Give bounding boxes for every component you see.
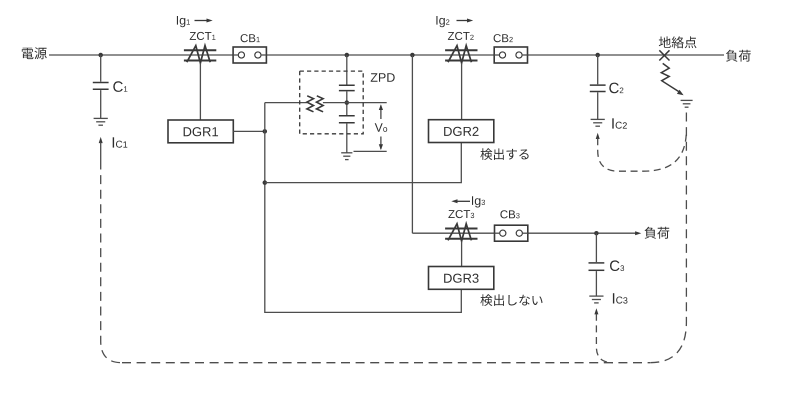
ground below C2: [591, 118, 605, 120]
wire C3 lower lead: [595, 271, 597, 296]
wire ZPD lower lead: [346, 124, 348, 153]
label Ig2: [436, 16, 444, 27]
wire C1 upper lead: [100, 55, 102, 82]
node trunk / DGR1: [263, 129, 268, 134]
node main bus / feeder 3 branch: [410, 53, 415, 58]
wire ZCT secondary lead ZCT3: [461, 241, 463, 266]
wire C2 upper lead: [597, 55, 599, 84]
current arrow IC1: [99, 137, 103, 143]
wire ZPD middle: [346, 91, 348, 115]
label C1: [113, 81, 123, 92]
label Vo: [375, 123, 383, 132]
wire feeder 3 horizontal: [412, 232, 636, 234]
wire feeder 3 vertical drop: [411, 55, 413, 233]
wire CB internal stubs CB1: [233, 54, 238, 56]
capacitor ZPD lower: [339, 115, 355, 117]
label 負荷 (load, feeder 3): [645, 227, 670, 239]
resistor ZPD left zigzag: [307, 96, 314, 112]
capacitor ZPD upper: [339, 84, 355, 86]
label ZCT1: [190, 32, 212, 40]
wire dashed IC1 return path (left side): [101, 161, 122, 363]
node main bus / C2 tap: [595, 53, 600, 58]
relay box DGR2: [429, 120, 494, 143]
wire ZCT secondary lead ZCT1: [199, 63, 201, 120]
relay box DGR3: [429, 267, 494, 290]
wire dashed IC3 return path: [596, 314, 613, 363]
relay box DGR1: [168, 120, 233, 143]
wire C1 lower lead: [100, 90, 102, 118]
node trunk / DGR2: [263, 180, 268, 185]
current arrow IC2: [596, 133, 600, 139]
ZCT winding zigzag ZCT2: [448, 46, 471, 63]
wire DGR2 output to trunk: [265, 143, 462, 183]
current arrow Ig3 (left): [451, 199, 457, 203]
ZCT core bars ZCT3: [445, 228, 477, 230]
wire trunk vertical with bottom run to DGR3: [265, 103, 462, 313]
ground at fault point: [681, 99, 693, 101]
capacitor C2: [590, 84, 606, 86]
capacitor C1: [93, 82, 109, 84]
wire CB internal stubs CB3: [495, 232, 500, 234]
label Ig3: [472, 196, 480, 207]
label ZCT2: [448, 32, 470, 40]
node ZPD midpoint: [345, 100, 350, 105]
circuit breaker CB1: [233, 47, 266, 63]
fault cross mark: [659, 50, 669, 60]
label ZCT3: [448, 210, 470, 218]
label ZPD: [371, 73, 395, 82]
wire ZPD upper lead: [346, 55, 348, 85]
ground ZPD: [341, 152, 352, 154]
current arrow Ig2: [457, 20, 469, 22]
label 電源 (power source): [22, 47, 47, 59]
ZCT winding zigzag ZCT1: [187, 46, 210, 63]
node feeder 3 / C3 tap: [594, 231, 599, 236]
arrow to load feeder 3: [635, 231, 641, 235]
measurement arrow Vo (shaft broken around label): [380, 106, 382, 120]
label 地絡点 (ground fault point): [659, 36, 697, 48]
dashed enclosure ZPD: [300, 71, 364, 134]
ground below C3: [589, 295, 603, 297]
wire CB internal stubs CB2: [494, 54, 499, 56]
wire DGR1 output to trunk: [233, 130, 264, 132]
wire C3 upper lead: [595, 233, 597, 262]
node main bus / ZPD tap: [345, 53, 350, 58]
label CB2: [494, 34, 509, 42]
label 検出しない (does not detect): [480, 294, 542, 306]
capacitor C3: [589, 262, 605, 264]
wire dashed earth return bottom: [122, 362, 650, 364]
label CB1: [241, 34, 256, 42]
label IC3: [613, 293, 614, 303]
label C2: [609, 83, 619, 94]
circuit breaker CB3: [495, 225, 528, 241]
wire main bus: [49, 54, 724, 56]
label IC2: [612, 118, 613, 128]
ground below C1: [94, 117, 108, 119]
label C3: [610, 260, 620, 271]
label 検出する (detects): [480, 148, 528, 160]
wire dashed earth return right side to fault point: [650, 113, 686, 363]
label Ig1: [177, 16, 185, 27]
label IC1: [113, 137, 114, 147]
wire dashed IC2 return path: [598, 133, 687, 171]
resistor ZPD right zigzag: [317, 96, 324, 112]
wire Vo lower reference line: [354, 150, 387, 152]
label CB3: [500, 210, 515, 218]
wire C2 lower lead: [597, 92, 599, 119]
fault arc zigzag arrow: [661, 63, 680, 92]
ZCT core bars ZCT1: [184, 49, 216, 51]
wire ZPD mid tap to trunk (left segment): [265, 102, 307, 104]
label 負荷 (load, top right): [726, 50, 751, 62]
node main bus / C1 tap: [98, 53, 103, 58]
wire ZPD mid tap (right segment) to Vo reference: [323, 102, 387, 104]
current arrow IC3: [594, 308, 598, 314]
wire ZCT secondary lead ZCT2: [461, 63, 463, 120]
ZCT winding zigzag ZCT3: [448, 224, 471, 241]
ZCT core bars ZCT2: [445, 49, 477, 51]
current arrow Ig1: [195, 20, 208, 22]
circuit breaker CB2: [494, 47, 527, 63]
